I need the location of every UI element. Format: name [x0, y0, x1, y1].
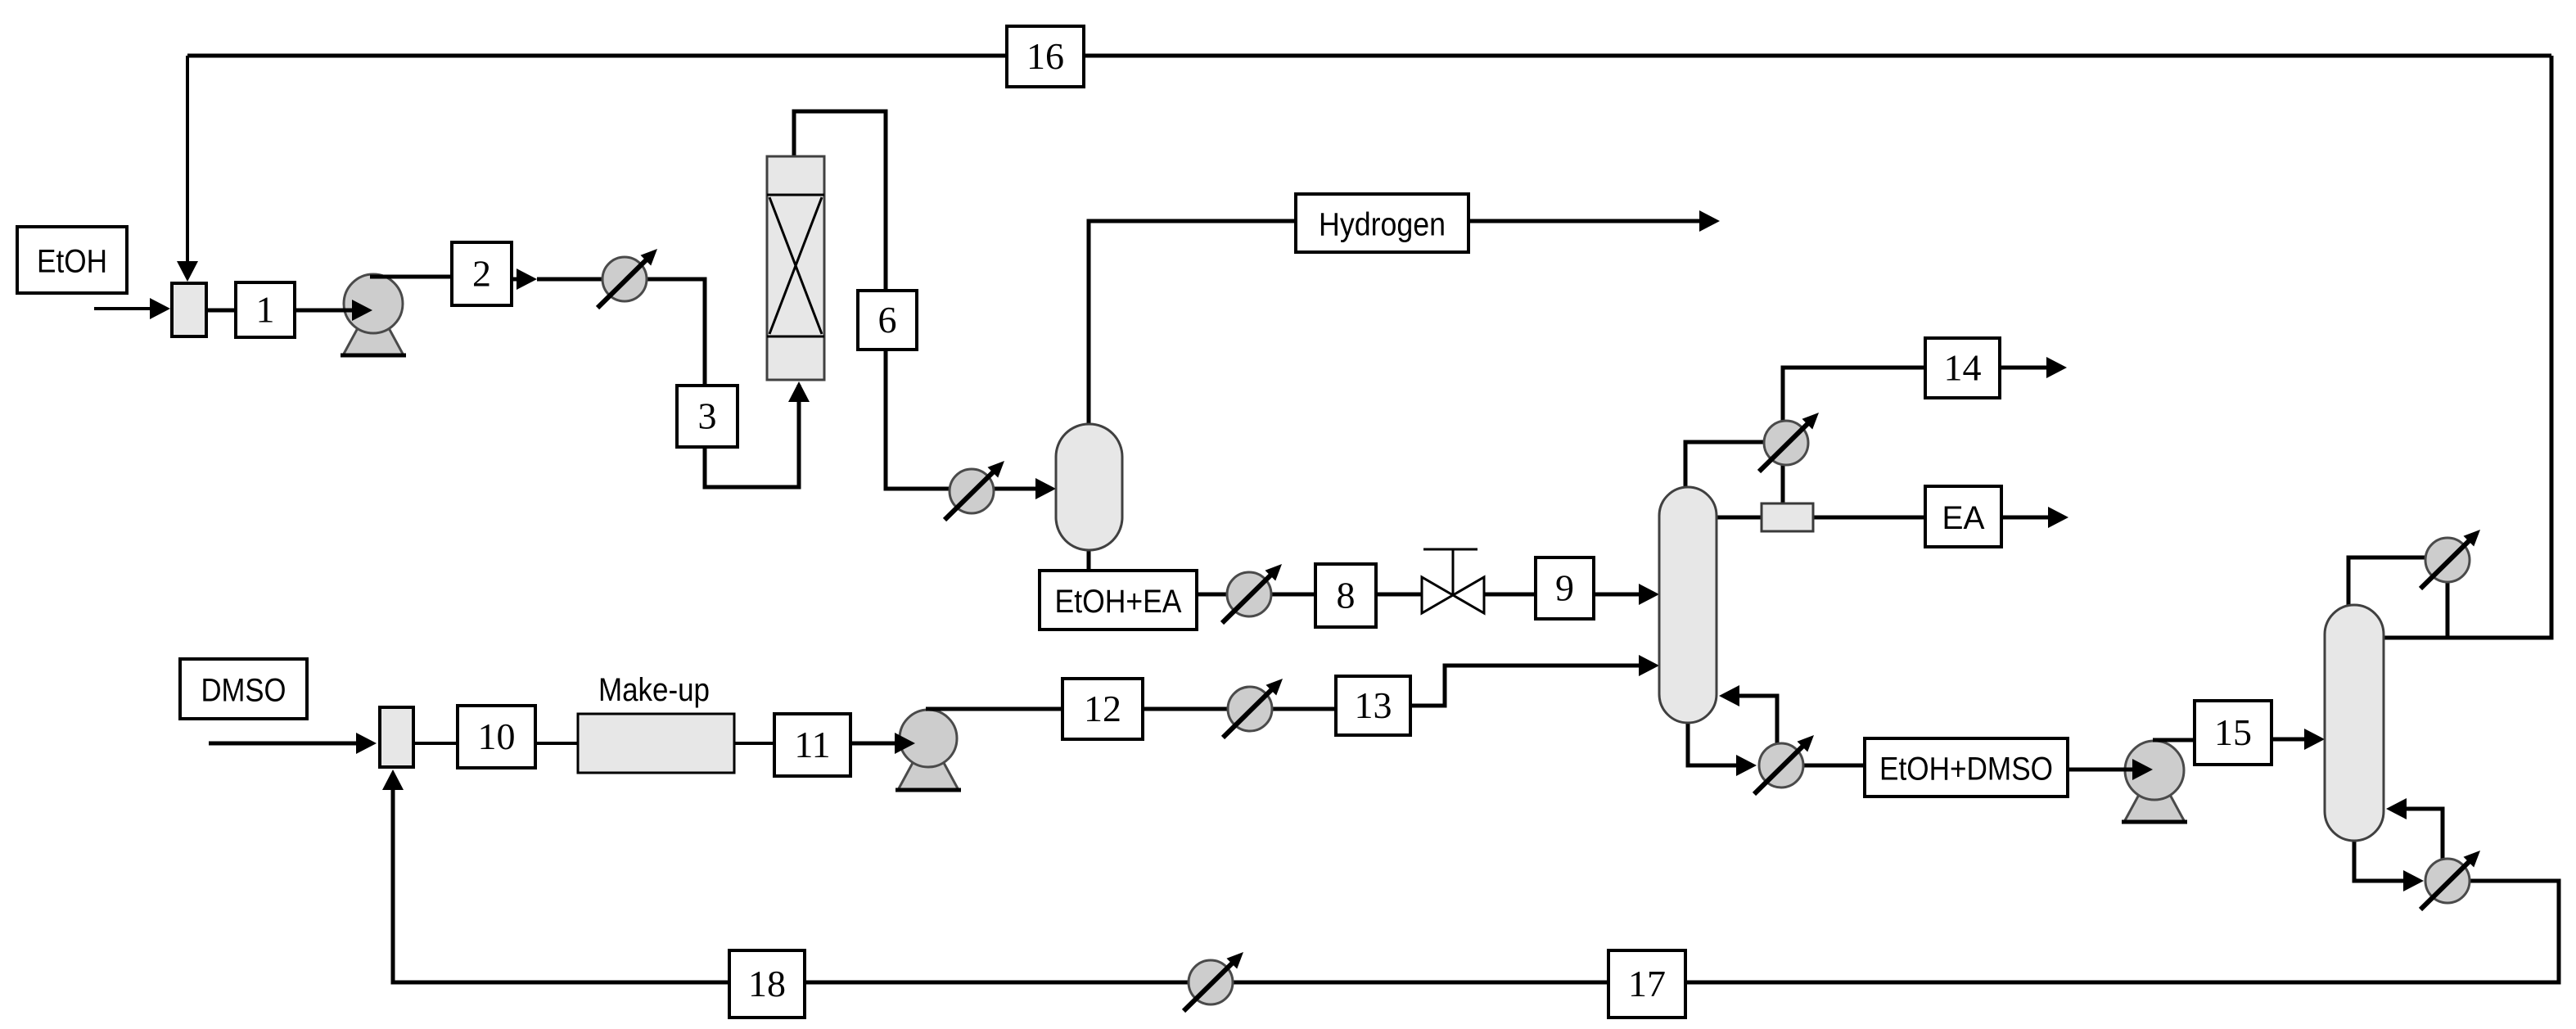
wire: reboiler return into column C1 (arrow left) [1719, 685, 1777, 743]
wire: column C1 top to condenser E5 [1685, 442, 1765, 487]
wire: pump P1 outlet to stream box 2 [370, 275, 452, 279]
valve V1 (letdown valve) [1422, 549, 1484, 613]
wire: stream box 11 to pump P2 with arrow [850, 733, 915, 754]
heat exchanger E7 (column C2 condenser) [2420, 525, 2485, 589]
label box EA product [1925, 486, 2001, 547]
make-up unit (gray block) [578, 714, 734, 773]
svg-text:2: 2 [472, 253, 491, 295]
pump P3 (recycle pump) [2122, 741, 2187, 822]
mixer M1 (EtOH feed mixing tee) [172, 283, 206, 336]
stream box 11 [774, 714, 850, 776]
stream box 17 [1608, 950, 1685, 1018]
wire: column C2 bottoms to E8 with arrow [2354, 841, 2424, 891]
reflux drum D2 (side draw box) [1762, 503, 1813, 531]
heat exchanger E2 (reactor effluent cooler) [945, 456, 1009, 520]
svg-text:Make-up: Make-up [598, 672, 710, 708]
reactor R1 (packed bed) [767, 156, 824, 380]
wire: E5 down to reflux drum D2 [1781, 463, 1785, 506]
wire: mixer M1 to stream box 1 [206, 309, 236, 313]
wire: stream box 1 to pump P1 with arrow [295, 300, 372, 321]
stream box 3 [677, 386, 738, 447]
mixer M2 (DMSO feed mixing tee) [380, 707, 413, 767]
wire: E3 to stream box 8 [1270, 593, 1315, 597]
svg-text:17: 17 [1628, 963, 1666, 1004]
wire: stream 13 elbow into column C1 with arrow [1410, 655, 1659, 706]
svg-text:18: 18 [748, 963, 786, 1004]
wire: stream 15 into column C2 with arrow [2271, 729, 2325, 750]
wire: E1 to reactor bottom (stream 3) [646, 279, 810, 487]
stream box 18 [729, 950, 805, 1018]
svg-text:13: 13 [1355, 684, 1392, 726]
svg-text:15: 15 [2214, 711, 2252, 753]
wire: recycle stream 16 drop into mixer M1 [177, 56, 198, 282]
wire: E2 to flash drum with arrow [993, 478, 1056, 499]
flash drum D1 [1056, 424, 1122, 550]
stream box 6 [858, 291, 917, 350]
svg-text:16: 16 [1026, 35, 1064, 77]
wire: flash drum top to Hydrogen line [1089, 221, 1296, 424]
stream box 12 [1062, 679, 1143, 739]
stream box 14 [1925, 338, 2000, 398]
svg-text:9: 9 [1555, 567, 1574, 609]
wire: reactor top to stream 6 line down to E2 [794, 111, 950, 489]
svg-text:EA: EA [1942, 500, 1985, 536]
svg-text:6: 6 [878, 299, 897, 341]
heat exchanger E5 (column C1 condenser) [1759, 408, 1824, 472]
pump P1 (EtOH feed pump) [341, 274, 406, 355]
stream box 2 [452, 242, 512, 305]
heat exchanger E9 (recycle cooler on stream 17/18) [1184, 947, 1248, 1011]
wire: E4 to stream box 13 [1271, 707, 1336, 711]
heat exchanger E4 (stream 12 heater) [1223, 674, 1288, 738]
wire: E8 to bottom recycle line 17/18 [382, 769, 2559, 982]
wire: pump P2 outlet to stream box 12 [926, 707, 1062, 711]
wire: E7 down to recycle header [2446, 580, 2450, 638]
svg-text:Hydrogen: Hydrogen [1319, 207, 1446, 243]
stream box 13 [1336, 676, 1410, 735]
label box EtOH feed [17, 227, 127, 293]
wire: Make-up unit to stream box 11 [734, 742, 774, 745]
wire: EtOH+EA to E3 [1197, 593, 1229, 597]
wire: column C1 side draw through D2 to EA out with arrow [1717, 507, 2068, 528]
wire: Hydrogen outlet arrow [1468, 210, 1720, 232]
svg-text:14: 14 [1944, 347, 1982, 389]
wire: reboiler return into column C2 (arrow left) [2386, 798, 2443, 860]
svg-text:EtOH: EtOH [37, 244, 107, 280]
svg-text:EtOH+EA: EtOH+EA [1055, 584, 1182, 620]
wire: E6 to EtOH+DMSO label [1803, 764, 1865, 768]
heat exchanger E1 (feed heater) [598, 244, 662, 308]
stream box 8 [1315, 564, 1376, 627]
wire: DMSO feed arrow into mixer M2 [209, 733, 377, 754]
wire: stream 9 into column C1 with arrow [1594, 584, 1659, 605]
stream box 10 [458, 706, 535, 768]
svg-text:1: 1 [256, 289, 275, 331]
stream box 9 [1536, 557, 1594, 619]
distillation column C2 [2325, 605, 2384, 841]
label box DMSO feed [180, 659, 307, 719]
heat exchanger E6 (column C1 bottoms cooler) [1754, 730, 1819, 794]
svg-text:EtOH+DMSO: EtOH+DMSO [1879, 751, 2053, 788]
stream box 16 [1007, 26, 1084, 87]
svg-text:12: 12 [1084, 688, 1121, 729]
svg-text:10: 10 [478, 715, 516, 757]
svg-text:3: 3 [698, 395, 717, 437]
wire: EtOH feed arrow into mixer M1 [94, 298, 170, 319]
wire: recycle header from column C2 to right riser [2384, 56, 2551, 638]
pump P2 (DMSO pump) [896, 710, 961, 790]
svg-text:8: 8 [1337, 575, 1356, 616]
wire: mixer M2 to stream box 10 [413, 742, 458, 745]
wire: E5 up to stream 14 out with arrow [1783, 357, 2067, 423]
svg-text:DMSO: DMSO [201, 673, 286, 709]
heat exchanger E8 (column C2 bottoms cooler) [2420, 846, 2485, 909]
wire: stream box 2 to heat exchanger E1 with arrow [512, 269, 603, 290]
stream box 1 [236, 282, 295, 337]
wire: recycle stream 16 top header [187, 54, 2551, 58]
distillation column C1 [1659, 487, 1717, 723]
wire: stream box 8 to valve V1 [1376, 593, 1422, 597]
wire: column C2 top to condenser E7 [2348, 557, 2426, 605]
wire: stream box 12 to E4 [1143, 707, 1229, 711]
wire: column C1 bottoms to E6 with arrow [1688, 723, 1757, 776]
wire: pump P3 outlet to stream box 15 [2153, 738, 2195, 742]
wire: stream box 10 to Make-up unit [535, 742, 578, 745]
heat exchanger E3 (stream 8 heater) [1222, 559, 1287, 623]
wire: valve V1 to stream box 9 [1484, 593, 1536, 597]
label box Hydrogen product [1296, 194, 1468, 252]
stream box 15 [2195, 701, 2271, 765]
label box EtOH+EA stream [1040, 571, 1197, 630]
wire: flash drum bottom into EtOH+EA label [1087, 550, 1091, 573]
label box EtOH+DMSO stream [1865, 738, 2068, 797]
svg-text:11: 11 [794, 724, 830, 765]
wire: EtOH+DMSO to pump P3 with arrow [2068, 759, 2153, 780]
